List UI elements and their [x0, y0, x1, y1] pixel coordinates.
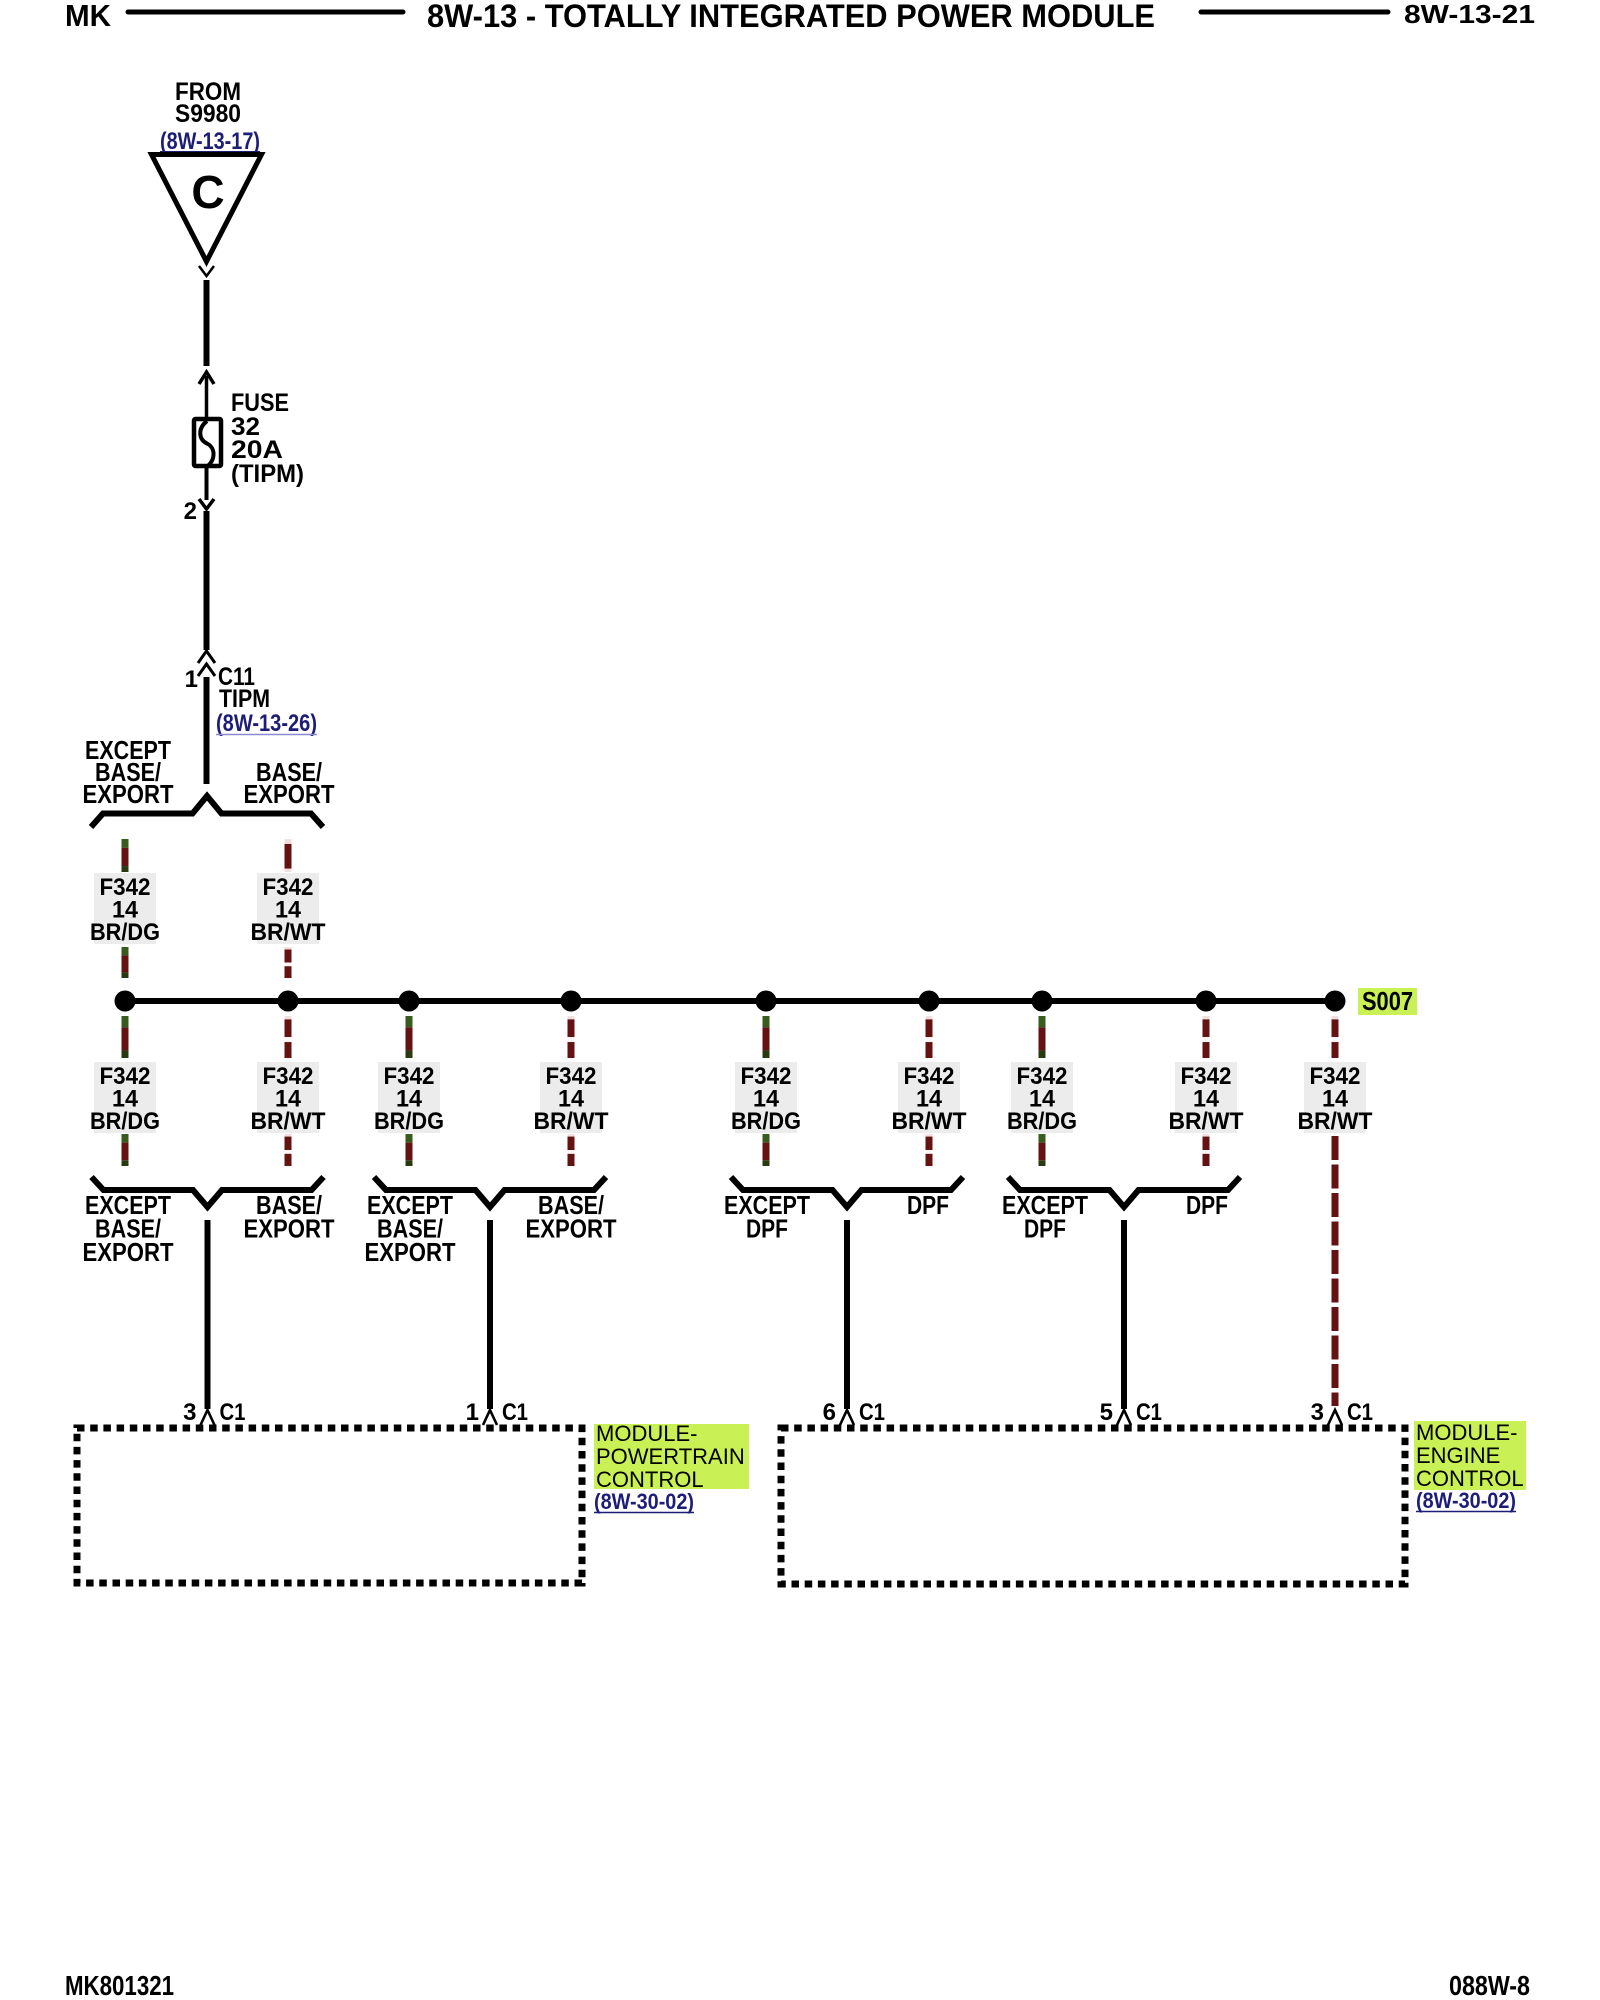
- svg-text:(8W-13-17): (8W-13-17): [160, 128, 260, 155]
- wire F342 stub below bus, column 1: [122, 1016, 129, 1058]
- module box: powertrain control module: [77, 1428, 582, 1583]
- wire (C11 to splice brace): [204, 677, 210, 784]
- junction dot 1 on S007: [115, 991, 136, 1012]
- svg-text:2: 2: [184, 498, 197, 525]
- svg-text:EXPORT: EXPORT: [83, 779, 174, 809]
- svg-text:BR/WT: BR/WT: [1298, 1108, 1373, 1135]
- svg-text:BR/DG: BR/DG: [731, 1108, 801, 1135]
- svg-text:BR/WT: BR/WT: [1169, 1108, 1244, 1135]
- svg-text:POWERTRAIN: POWERTRAIN: [596, 1444, 745, 1469]
- label option (right of brace 2): [526, 1190, 617, 1244]
- label F342 14 BR/WT, column 6: [892, 1062, 967, 1135]
- svg-text:MODULE-: MODULE-: [1416, 1420, 1517, 1445]
- svg-text:BR/WT: BR/WT: [251, 1108, 326, 1135]
- svg-text:1: 1: [466, 1399, 479, 1426]
- reference (8W-13-26): [216, 710, 317, 737]
- svg-text:DPF: DPF: [907, 1190, 949, 1220]
- reference (8W-30-02) right: [1416, 1488, 1516, 1513]
- splice bus S007: [125, 998, 1335, 1004]
- label F342 14 BR/DG, column 5: [731, 1062, 801, 1135]
- svg-text:C1: C1: [859, 1399, 885, 1426]
- svg-text:6: 6: [823, 1399, 836, 1426]
- label F342 14 BR/WT, column 8: [1169, 1062, 1244, 1135]
- svg-text:BR/WT: BR/WT: [251, 919, 326, 946]
- arrow into wire above fuse: [199, 372, 214, 424]
- wire F342 stub below bus, column 5: [763, 1016, 770, 1058]
- label FUSE 32 20A (TIPM): [231, 389, 304, 488]
- merge brace 1 (branches join): [92, 1177, 324, 1207]
- svg-text:C1: C1: [1347, 1399, 1373, 1426]
- module box: engine control module: [781, 1428, 1405, 1584]
- connector triangle C (from S9980): [152, 155, 262, 262]
- reference (8W-13-17): [160, 128, 260, 155]
- wire F342 stub below label, column 5: [763, 1134, 770, 1166]
- label F342 14 BR/DG, column 7: [1007, 1062, 1077, 1135]
- junction dot 8 on S007: [1196, 991, 1217, 1012]
- svg-text:BR/DG: BR/DG: [90, 1108, 160, 1135]
- svg-text:BR/WT: BR/WT: [892, 1108, 967, 1135]
- svg-text:MK: MK: [65, 0, 112, 33]
- svg-text:8W-13-21: 8W-13-21: [1404, 0, 1535, 29]
- merge brace 3 (branches join): [731, 1177, 963, 1207]
- wire F342 stub below bus, column 9: [1332, 1016, 1339, 1058]
- wire F342 stub below bus, column 7: [1039, 1016, 1046, 1058]
- junction dot 4 on S007: [561, 991, 582, 1012]
- svg-text:3: 3: [183, 1399, 196, 1426]
- label C11 TIPM: [218, 663, 270, 713]
- connector pin 3 C1: [183, 1399, 245, 1426]
- reference (8W-30-02) left: [594, 1489, 694, 1514]
- svg-text:DPF: DPF: [746, 1214, 788, 1244]
- wire F342 stub below bus, column 4: [568, 1016, 575, 1058]
- label F342 14 BR/WT (above bus, right): [251, 873, 326, 946]
- wire F342 stub above label (right branch): [285, 839, 292, 872]
- svg-text:(TIPM): (TIPM): [231, 460, 304, 488]
- connector pin 5 C1: [1100, 1399, 1162, 1426]
- label F342 14 BR/WT, column 2: [251, 1062, 326, 1135]
- wire from merge brace 4 to module: [1121, 1220, 1127, 1409]
- wire F342 stub above label (left branch): [122, 839, 129, 872]
- svg-text:(8W-30-02): (8W-30-02): [594, 1489, 694, 1514]
- svg-text:MODULE-: MODULE-: [596, 1421, 697, 1446]
- svg-text:EXPORT: EXPORT: [83, 1237, 174, 1267]
- label option (left of brace 3): [724, 1190, 810, 1244]
- junction dot 2 on S007: [278, 991, 299, 1012]
- svg-text:EXPORT: EXPORT: [526, 1214, 617, 1244]
- svg-text:ENGINE: ENGINE: [1416, 1443, 1500, 1468]
- svg-text:DPF: DPF: [1024, 1214, 1066, 1244]
- wire F342 stub below label, column 7: [1039, 1134, 1046, 1166]
- wire F342 stub to bus (right branch): [285, 947, 292, 978]
- label option (right of brace 4): [1186, 1190, 1228, 1220]
- label S007: [1358, 986, 1417, 1016]
- label F342 14 BR/WT, column 4: [534, 1062, 609, 1135]
- wire F342 stub below bus, column 6: [926, 1016, 933, 1058]
- wire F342 stub below bus, column 8: [1203, 1016, 1210, 1058]
- merge brace 2 (branches join): [374, 1177, 606, 1207]
- connector pin 1 C1: [466, 1399, 528, 1426]
- wire F342 stub below bus, column 2: [285, 1016, 292, 1058]
- label BASE/EXPORT (upper right): [244, 757, 335, 809]
- label MODULE-ENGINE CONTROL: [1414, 1420, 1526, 1491]
- svg-text:EXPORT: EXPORT: [244, 779, 335, 809]
- svg-text:EXPORT: EXPORT: [244, 1214, 335, 1244]
- label option (left of brace 1): [83, 1190, 174, 1267]
- wire F342 stub below bus, column 3: [406, 1016, 413, 1058]
- svg-text:5: 5: [1100, 1399, 1113, 1426]
- label option (left of brace 4): [1002, 1190, 1088, 1244]
- svg-text:C1: C1: [502, 1399, 528, 1426]
- wire from merge brace 1 to module: [205, 1220, 211, 1409]
- wire from merge brace 2 to module: [487, 1220, 493, 1409]
- svg-text:1: 1: [185, 666, 198, 693]
- in-line connector C11 arrows: [198, 651, 215, 676]
- label option (right of brace 1): [244, 1190, 335, 1244]
- svg-text:DPF: DPF: [1186, 1190, 1228, 1220]
- wire F342 stub to bus (left branch): [122, 947, 129, 978]
- wire from merge brace 3 to module: [844, 1220, 850, 1409]
- merge brace 4 (branches join): [1008, 1177, 1240, 1207]
- svg-text:(8W-30-02): (8W-30-02): [1416, 1488, 1516, 1513]
- wire (triangle C to fuse): [204, 280, 210, 366]
- junction dot 6 on S007: [919, 991, 940, 1012]
- wire (fuse to C11): [204, 511, 210, 650]
- header rule right: [1201, 10, 1388, 15]
- label option (left of brace 2): [365, 1190, 456, 1267]
- svg-text:BR/DG: BR/DG: [1007, 1108, 1077, 1135]
- wire F342 stub below label, column 2: [285, 1134, 292, 1166]
- connector pin 3 C1: [1311, 1399, 1373, 1426]
- dashed wire BR/WT column 9 to module: [1332, 1136, 1339, 1406]
- svg-text:BR/DG: BR/DG: [374, 1108, 444, 1135]
- junction dot 5 on S007: [756, 991, 777, 1012]
- header rule left: [128, 10, 403, 15]
- label F342 14 BR/DG, column 3: [374, 1062, 444, 1135]
- wire F342 stub below label, column 6: [926, 1134, 933, 1166]
- svg-text:S007: S007: [1362, 986, 1413, 1016]
- junction dot 9 on S007: [1325, 991, 1346, 1012]
- label F342 14 BR/DG, column 1: [90, 1062, 160, 1135]
- wire F342 stub below label, column 1: [122, 1134, 129, 1166]
- svg-text:C1: C1: [220, 1399, 246, 1426]
- arrowhead below triangle: [199, 266, 214, 276]
- label EXCEPT BASE/EXPORT (upper left): [83, 735, 174, 809]
- junction dot 3 on S007: [399, 991, 420, 1012]
- splice brace (C11 splits to branches): [91, 796, 323, 827]
- svg-text:8W-13 - TOTALLY INTEGRATED POW: 8W-13 - TOTALLY INTEGRATED POWER MODULE: [427, 0, 1155, 34]
- svg-text:C: C: [191, 166, 224, 218]
- wire below fuse: [205, 468, 209, 500]
- label F342 14 BR/WT, column 9: [1298, 1062, 1373, 1135]
- svg-text:088W-8: 088W-8: [1449, 1970, 1530, 2000]
- svg-text:S9980: S9980: [175, 100, 241, 128]
- label FROM S9980: [175, 78, 241, 128]
- wire F342 stub below label, column 8: [1203, 1134, 1210, 1166]
- connector arrow pin 2: [199, 499, 214, 509]
- svg-text:3: 3: [1311, 1399, 1324, 1426]
- svg-text:EXPORT: EXPORT: [365, 1237, 456, 1267]
- label F342 14 BR/DG (above bus, left): [90, 873, 160, 946]
- label option (right of brace 3): [907, 1190, 949, 1220]
- fuse 32 20A (TIPM): [194, 419, 221, 468]
- connector pin 6 C1: [823, 1399, 885, 1426]
- wire F342 stub below label, column 4: [568, 1134, 575, 1166]
- svg-text:MK801321: MK801321: [65, 1970, 174, 2000]
- wire F342 stub below label, column 3: [406, 1134, 413, 1166]
- svg-text:BR/DG: BR/DG: [90, 919, 160, 946]
- label MODULE-POWERTRAIN CONTROL: [594, 1421, 749, 1492]
- svg-text:TIPM: TIPM: [219, 685, 270, 713]
- svg-text:(8W-13-26): (8W-13-26): [216, 710, 317, 737]
- svg-text:C1: C1: [1136, 1399, 1162, 1426]
- junction dot 7 on S007: [1032, 991, 1053, 1012]
- svg-text:BR/WT: BR/WT: [534, 1108, 609, 1135]
